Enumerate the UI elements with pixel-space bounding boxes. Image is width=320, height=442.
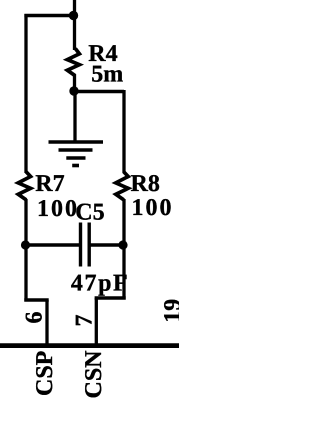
resistor R7 [18, 172, 30, 200]
svg-text:7: 7 [72, 315, 98, 327]
wire horizontal top [24, 14, 74, 17]
svg-text:C5: C5 [75, 200, 104, 226]
svg-text:19: 19 [160, 299, 179, 323]
wire pin 6 vertical [45, 300, 48, 346]
capacitor C5 [81, 223, 90, 267]
ground bar 2 [59, 148, 93, 152]
wire horizontal to right branch [75, 90, 125, 93]
resistor R4 [67, 49, 79, 76]
wire pin 7 vertical [95, 298, 98, 346]
node junction left of C5 [21, 240, 30, 249]
resistor R8 [116, 172, 128, 200]
wire left vertical R7 to junction [24, 199, 27, 302]
svg-text:CSN: CSN [81, 350, 107, 399]
ground bar 1 [49, 140, 104, 144]
wire top vertical into R4 [73, 0, 76, 50]
ground bar 4 [72, 164, 79, 168]
wire to C5 left plate [26, 243, 81, 246]
IC boundary line [0, 343, 179, 348]
node junction right of C5 [118, 240, 127, 249]
wire from C5 right plate [89, 243, 124, 246]
svg-text:6: 6 [22, 312, 48, 324]
wire right vertical R8 to step [122, 199, 125, 300]
wire right step horizontal [95, 296, 126, 299]
svg-text:47pF: 47pF [71, 270, 129, 296]
ground stem [73, 92, 76, 143]
svg-text:R7: R7 [35, 171, 64, 197]
wire right vertical to R8 [122, 90, 125, 173]
svg-text:100: 100 [37, 196, 79, 222]
svg-text:CSP: CSP [32, 351, 58, 396]
wire left vertical to R7 [24, 14, 27, 173]
svg-text:5m: 5m [91, 61, 123, 87]
svg-text:R8: R8 [131, 171, 160, 197]
node junction top [69, 11, 78, 20]
node junction below R4 [69, 86, 78, 95]
wire left step horizontal [24, 298, 48, 301]
wire R4 bottom lead [73, 75, 76, 93]
svg-text:100: 100 [132, 195, 174, 221]
ground bar 3 [66, 156, 85, 160]
